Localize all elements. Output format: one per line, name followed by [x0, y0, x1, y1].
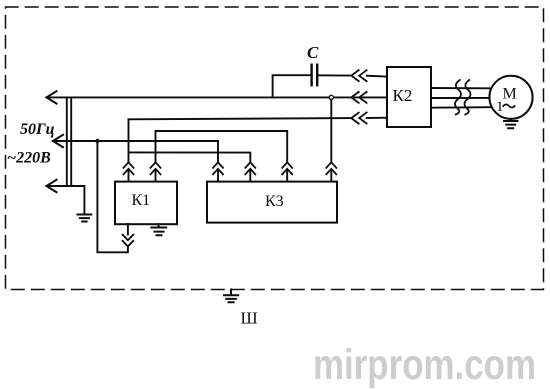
node J2 (open circle junction on W1) — [329, 95, 333, 99]
svg-text:М: М — [503, 86, 517, 103]
cable twist mark 2 — [464, 80, 470, 115]
svg-text:К2: К2 — [393, 86, 413, 105]
control box K3 — [207, 182, 337, 223]
arrow chevrons up K3 pin2 — [245, 162, 255, 174]
wire: vertical drop to K3 pin1 — [217, 141, 219, 182]
chevrons left on W1 into K2 middle pin — [351, 92, 366, 103]
arrow chevrons up K1 pin2 — [151, 162, 161, 174]
arrow chevrons left on W4 — [351, 113, 366, 124]
tilde of 1~ — [503, 104, 515, 107]
svg-text:~220В: ~220В — [7, 150, 51, 167]
svg-text:К1: К1 — [132, 192, 151, 209]
twin bus line 2 — [70, 97, 72, 186]
wire W6: from K1 pin1 vertical to K3 pin2 — [129, 152, 251, 181]
svg-text:К3: К3 — [265, 193, 284, 210]
control box K1 — [115, 182, 177, 225]
arrow chevrons left on capacitor wire — [351, 70, 366, 81]
arrow A1 (top left, pointing left) — [47, 91, 57, 103]
capacitor C1 plates — [312, 65, 318, 86]
wire W3: bottom-left grounded wire — [47, 186, 85, 214]
svg-text:C: C — [307, 43, 319, 62]
arrow A3 (bottom left, pointing left) — [47, 180, 57, 192]
enclosure dashed border (shield) — [6, 7, 544, 290]
wire: capacitor branch from W1 up and right — [273, 75, 311, 97]
svg-text:mirprom.com: mirprom.com — [313, 341, 536, 389]
arrow chevrons up K3 pin4 — [326, 162, 336, 174]
twin bus line 1 — [66, 97, 68, 186]
arrow chevrons up K1 pin1 — [124, 162, 134, 174]
wire: capacitor to K2 top pin — [318, 75, 387, 76]
svg-text:50Гц: 50Гц — [20, 121, 55, 138]
cable twist mark 1 — [455, 80, 461, 115]
wire W1: top phase wire from left arrow to K2 middle pin — [47, 96, 388, 98]
svg-text:Ш: Ш — [241, 309, 258, 328]
wire: K1 return loop from J1 down and to K1 bottom pin — [97, 141, 128, 252]
relay box K2 — [387, 67, 431, 127]
wire W4: K1 pin1 feed to K2 bottom pin — [129, 118, 388, 120]
arrow chevrons up K3 pin1 — [213, 162, 223, 174]
wire: K2 to motor, phase 3 — [431, 106, 490, 109]
wire: K2 to motor, phase 2 — [431, 97, 490, 99]
ground G4 on enclosure bottom — [224, 290, 238, 303]
arrow chevrons down K1 bottom pin — [123, 235, 134, 247]
motor M1 circle — [489, 76, 532, 119]
arrow A2 (middle left, pointing left) — [53, 135, 63, 147]
wire W5: K1 pin2 to K3 pin3 — [156, 131, 288, 182]
node J1 (junction dot on W2) — [95, 139, 99, 143]
wire W2: 50Hz/220V feed wire to K3 pin1 — [53, 140, 218, 142]
wire: K2 to motor, phase 1 — [431, 87, 490, 89]
wire: vertical from J2 to K3 pin4 — [330, 100, 332, 182]
ground G1 (left) — [78, 215, 92, 222]
ground G2 under K1 — [151, 224, 166, 235]
motor ground G3 — [504, 119, 518, 128]
wire: vertical K1 pin1 — [128, 119, 130, 181]
svg-text:1: 1 — [496, 99, 504, 115]
arrow chevrons up K3 pin3 — [282, 162, 292, 174]
